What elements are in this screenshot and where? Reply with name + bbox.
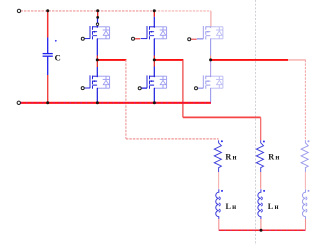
wire: top DC rail right segment	[154, 10, 211, 12]
wire: load1 R to L	[218, 172, 220, 189]
wire: bottom DC rail	[21, 102, 211, 104]
wire: leg3 lower source	[210, 88, 212, 102]
pin circle leg1 drain	[96, 23, 98, 25]
wire: phase C drop to load 3	[304, 60, 306, 140]
wire: leg3 drain feed	[210, 11, 212, 27]
svg-text:Lн: Lн	[226, 202, 237, 211]
gate wire leg3 lower	[198, 87, 204, 89]
wire: leg1 drain stub	[97, 11, 99, 18]
gate terminal leg1 lower	[81, 87, 84, 90]
wire: phase B midpoint rail	[154, 59, 183, 61]
wire: bottom DC rail texture	[21, 102, 211, 104]
gate wire leg2 upper	[135, 38, 141, 40]
wire: leg3 lower drain	[210, 60, 212, 76]
resistor R2 load	[256, 140, 263, 172]
wire: top DC rail	[21, 10, 155, 12]
svg-text:Rн: Rн	[225, 153, 236, 162]
node bottom rail / C	[46, 101, 49, 104]
wire: leg2 upper source	[153, 39, 155, 56]
wire: leg3 upper source	[210, 39, 212, 56]
resistor R3 load	[301, 140, 308, 172]
wire: load3 R to L	[304, 172, 306, 189]
wire: leg2 lower drain	[153, 60, 155, 66]
wire: leg1 upper source	[96, 39, 98, 56]
node load return / L2	[260, 229, 263, 232]
transistor VT3 upper leg3	[197, 26, 211, 39]
node bottom rail / leg2	[153, 101, 156, 104]
node top rail / leg1	[96, 9, 99, 12]
wire: load2 bottom	[260, 219, 262, 230]
gate wire leg3 upper	[191, 38, 197, 40]
transistor VT1 upper leg1	[84, 26, 98, 39]
transistor VT4 lower leg1	[84, 75, 98, 88]
node phase A midpoint	[96, 58, 99, 61]
wire: load return rail	[219, 229, 306, 231]
wire: load1 bottom	[218, 219, 220, 230]
wire: phase C midpoint rail fade	[288, 59, 306, 61]
node top rail / leg2	[153, 9, 156, 12]
node phase C midpoint	[209, 58, 212, 61]
wire: load3 bottom	[305, 219, 307, 230]
wire: bottom DC rail overdraw	[21, 102, 211, 104]
wire: phase B run to load 2	[183, 116, 261, 118]
page border gridline	[255, 0, 257, 245]
wire: leg2 lower source	[153, 88, 155, 102]
wire: phase A midpoint rail	[97, 59, 126, 61]
transistor VT6 lower leg3	[197, 75, 211, 88]
wire: phase A run to load 1	[126, 138, 219, 140]
terminal DC-	[17, 101, 20, 104]
inductor L1 load	[216, 189, 220, 219]
wire: capacitor top feed	[47, 11, 49, 38]
wire: phase B vertical drop	[182, 60, 184, 118]
wire: leg1 lower source	[96, 88, 98, 102]
wire: phase C midpoint rail	[211, 59, 288, 61]
svg-text:Lн: Lн	[268, 202, 279, 211]
wire: leg2 drain stub	[153, 11, 155, 17]
transistor VT1 drain pin lead	[97, 18, 99, 23]
node top rail / C	[46, 9, 49, 12]
transistor VT2 upper leg2	[141, 26, 155, 39]
svg-text:C: C	[55, 52, 61, 62]
capacitor C	[43, 38, 53, 76]
node phase B midpoint	[153, 58, 156, 61]
node bottom rail / leg1	[96, 101, 99, 104]
wire: capacitor bottom feed	[47, 75, 49, 103]
wire: leg1 lower drain	[96, 60, 98, 67]
resistor R1 load	[214, 140, 221, 172]
transistor VT5 lower leg2	[141, 75, 155, 88]
wire: load2 R to L	[260, 172, 262, 189]
svg-text:Rн: Rн	[268, 153, 279, 162]
inductor L2 load	[258, 189, 262, 219]
wire: phase B drop to load 2	[260, 117, 262, 140]
inductor L3 load	[302, 189, 306, 219]
node leg1 drain pin	[96, 16, 99, 19]
terminal DC+	[17, 9, 20, 12]
gate wire leg2 lower	[141, 87, 147, 89]
gate terminal leg1 upper	[81, 37, 84, 40]
wire: phase A vertical drop	[125, 60, 127, 139]
